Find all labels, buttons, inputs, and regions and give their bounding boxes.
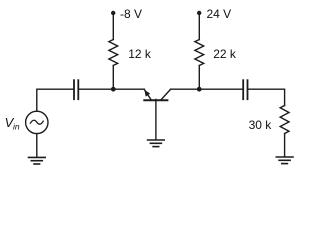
wire from V_in top up and right to capacitor C1	[37, 89, 73, 111]
label 24 V	[207, 7, 232, 21]
resistor R3 30k	[280, 106, 289, 134]
svg-text:22 k: 22 k	[213, 47, 237, 61]
wire from V_in bottom to ground	[36, 134, 38, 157]
value label 22 k	[213, 47, 237, 61]
ground at transistor base	[148, 140, 165, 147]
wire from R1 bottom to emitter node	[112, 66, 114, 90]
svg-text:24 V: 24 V	[207, 7, 232, 21]
wire from R2 bottom to collector node	[198, 66, 200, 90]
svg-text:12 k: 12 k	[128, 47, 152, 61]
resistor R1 12k	[109, 40, 118, 66]
wire from C2 right and down to resistor R3	[248, 89, 284, 105]
source V_in	[26, 111, 48, 133]
capacitor C1 input coupling	[74, 80, 78, 99]
node 24V supply terminal dot	[197, 11, 201, 15]
junction collector node dot	[197, 87, 202, 92]
capacitor C2 output coupling	[243, 80, 247, 99]
ground below V_in	[29, 157, 46, 164]
wire from collector to capacitor C2	[171, 88, 243, 90]
ground below R3	[276, 157, 293, 164]
resistor R2 22k	[195, 40, 204, 66]
wire from -8V terminal to resistor R1 top	[112, 13, 114, 40]
wire from R3 bottom to ground	[284, 134, 286, 157]
label -8 V	[120, 7, 142, 21]
svg-text:in: in	[13, 122, 20, 132]
transistor Q1 NPN common-base	[144, 89, 170, 140]
svg-text:30 k: 30 k	[249, 118, 273, 132]
label V_in	[5, 115, 20, 131]
value label 30 k	[249, 118, 273, 132]
node -8V supply terminal dot	[111, 11, 115, 15]
value label 12 k	[128, 47, 152, 61]
junction emitter node dot	[111, 87, 116, 92]
wire from 24V terminal to resistor R2 top	[198, 13, 200, 40]
wire from C1 to emitter node and transistor	[79, 88, 144, 90]
svg-text:-8 V: -8 V	[120, 7, 142, 21]
